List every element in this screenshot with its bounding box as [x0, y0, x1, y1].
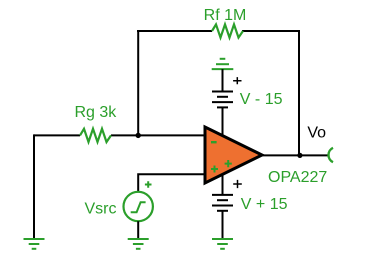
resistor Rf zigzag — [212, 24, 243, 37]
junction node inverting input — [136, 133, 141, 138]
svg-text:OPA227: OPA227 — [268, 169, 327, 186]
wire ground to V-15 battery — [222, 69, 224, 91]
wire feedback left vertical — [137, 30, 139, 135]
svg-text:Rf 1M: Rf 1M — [204, 7, 247, 24]
ground left — [24, 239, 45, 249]
wire noninverting input — [138, 174, 205, 192]
op-amp plus mark input — [211, 166, 218, 173]
terminal Vo arc — [328, 148, 333, 162]
wire V-15 battery to op-amp top — [222, 107, 224, 137]
ground Vsrc — [128, 239, 149, 249]
wire input left vertical — [33, 134, 35, 238]
svg-text:V + 15: V + 15 — [241, 196, 288, 213]
junction node output — [297, 153, 302, 158]
wire V+15 battery to ground — [222, 211, 224, 239]
source Vsrc circle — [124, 192, 153, 221]
wire inverting input right segment — [111, 134, 205, 136]
svg-text:V - 15: V - 15 — [240, 91, 283, 108]
source Vsrc step symbol — [131, 202, 146, 212]
wire op-amp bottom to V+15 battery — [222, 172, 224, 195]
resistor Rg zigzag — [80, 129, 111, 142]
wire output — [262, 154, 328, 156]
battery V+15 — [212, 195, 233, 211]
wire inverting input left segment — [34, 134, 80, 136]
plus sign V-15 — [233, 77, 241, 84]
op-amp minus mark — [211, 141, 217, 143]
svg-text:Vo: Vo — [307, 125, 326, 142]
ground below V+15 — [212, 239, 233, 249]
plus sign Vsrc — [145, 181, 152, 188]
wire top feedback horizontal right segment — [242, 30, 299, 32]
wire feedback right vertical — [298, 30, 300, 155]
ground inverted above V-15 — [212, 59, 234, 69]
svg-text:Vsrc: Vsrc — [85, 200, 117, 217]
wire Vsrc to ground — [137, 221, 139, 239]
battery V-15 — [212, 92, 233, 108]
plus sign V+15 — [233, 180, 242, 188]
op-amp U1 triangle — [205, 127, 262, 183]
op-amp plus mark supply — [225, 160, 232, 167]
svg-text:Rg 3k: Rg 3k — [75, 104, 118, 121]
wire top feedback horizontal left segment — [137, 30, 212, 32]
